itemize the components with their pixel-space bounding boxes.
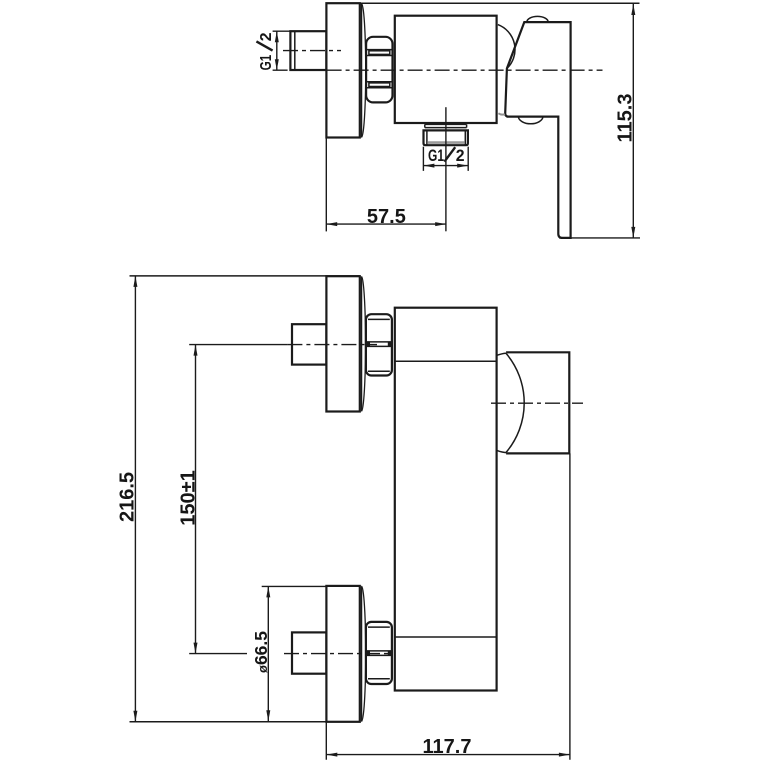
dimension 115.3 extension line (bottom) bbox=[559, 237, 640, 239]
svg-text:115.3: 115.3 bbox=[615, 94, 637, 143]
dimension 216.5 line bbox=[134, 276, 136, 722]
svg-text:150±1: 150±1 bbox=[178, 470, 200, 525]
valve body (front view) bbox=[395, 308, 497, 691]
top escutcheon dome rim bbox=[361, 277, 363, 412]
dimension 216.5 bottom extension line / plate bottom edge bbox=[130, 721, 360, 723]
handle bottom bump bbox=[518, 117, 543, 124]
svg-text:G1: G1 bbox=[428, 146, 444, 165]
inlet pipe (side view) bbox=[290, 31, 326, 70]
handle top bump bbox=[527, 16, 548, 22]
handle (front view) bbox=[506, 352, 569, 453]
label G1/2 (outlet) bbox=[428, 146, 465, 165]
svg-text:117.7: 117.7 bbox=[423, 736, 472, 758]
body seam lines bbox=[395, 361, 497, 637]
handle dome arc (front view) bbox=[506, 353, 524, 452]
svg-text:57.5: 57.5 bbox=[367, 206, 406, 228]
union nut (side view) bbox=[366, 37, 392, 103]
valve body (side view) bbox=[395, 16, 497, 123]
top extension line / wall plate top edge bbox=[326, 2, 639, 4]
top union centerline bbox=[189, 344, 377, 346]
escutcheon dome rim line bbox=[361, 4, 363, 138]
wall plate (side view) bbox=[326, 3, 359, 137]
label G1/2 (outlet) dimension arrows bbox=[423, 164, 468, 168]
bottom escutcheon dome arc bbox=[362, 586, 366, 721]
dimension 117.7 extension lines bbox=[326, 453, 570, 759]
label 150±1 (rotated) bbox=[178, 470, 200, 525]
dimension 216.5 top extension line / top plate top edge bbox=[130, 275, 360, 277]
bottom union centerline bbox=[189, 653, 388, 655]
bottom union nut bbox=[366, 622, 392, 684]
dimension 150±1 line bbox=[195, 345, 197, 654]
label 57.5 bbox=[367, 206, 406, 228]
handle dome arc (side view) bbox=[498, 25, 515, 69]
handle axis centerline bbox=[491, 402, 583, 404]
top union nut bbox=[366, 314, 392, 375]
svg-text:2: 2 bbox=[258, 32, 275, 41]
main axis centerline (top view) bbox=[273, 69, 603, 71]
dimension φ66.5 arrows bbox=[266, 586, 270, 721]
handle ear arcs bbox=[497, 353, 506, 452]
bottom inlet pipe bbox=[292, 632, 326, 673]
dimension φ66.5 line bbox=[267, 586, 269, 721]
inlet pipe centerline bbox=[283, 50, 341, 52]
handle dome bottom sliver bbox=[498, 113, 505, 114]
dimension G1/2 (inlet) line bbox=[276, 31, 278, 70]
dimension 115.3 arrows bbox=[631, 4, 635, 238]
escutcheon dome arc bbox=[362, 4, 366, 138]
dimension 150±1 arrows bbox=[194, 345, 198, 654]
outlet center line bbox=[445, 107, 447, 231]
label G1/2 (inlet, rotated) bbox=[258, 32, 275, 70]
svg-text:216.5: 216.5 bbox=[117, 472, 139, 522]
dimension 57.5 extension lines bbox=[325, 138, 327, 232]
dimension 117.7 line bbox=[326, 754, 570, 756]
label G1/2 (outlet) extension lines bbox=[423, 147, 468, 171]
bottom escutcheon dome rim bbox=[361, 586, 363, 721]
label 115.3 (rotated) bbox=[615, 94, 637, 143]
bottom wall plate bbox=[326, 586, 359, 722]
dimension G1/2 (inlet) arrows bbox=[275, 31, 279, 70]
svg-text:2: 2 bbox=[456, 146, 465, 165]
label 117.7 bbox=[423, 736, 472, 758]
top escutcheon dome arc bbox=[362, 277, 366, 412]
svg-text:G1: G1 bbox=[258, 55, 275, 71]
handle lever (side view) bbox=[505, 22, 570, 238]
dimension 115.3 line bbox=[632, 4, 634, 238]
outlet fitting (side view) bbox=[424, 124, 468, 145]
dimension φ66.5 top extension line bbox=[262, 585, 327, 587]
label φ66.5 (rotated) bbox=[251, 631, 271, 673]
top wall plate bbox=[326, 276, 359, 411]
label G1/2 (inlet) slash bbox=[256, 41, 272, 50]
dimension G1/2 (inlet) extension lines bbox=[273, 30, 291, 32]
top inlet pipe bbox=[292, 324, 326, 364]
dimension 57.5 arrows bbox=[326, 222, 446, 226]
label 216.5 (rotated) bbox=[117, 472, 139, 522]
dimension 117.7 arrows bbox=[326, 753, 570, 757]
dimension 57.5 line bbox=[326, 223, 446, 225]
dimension 216.5 arrows bbox=[133, 276, 137, 722]
